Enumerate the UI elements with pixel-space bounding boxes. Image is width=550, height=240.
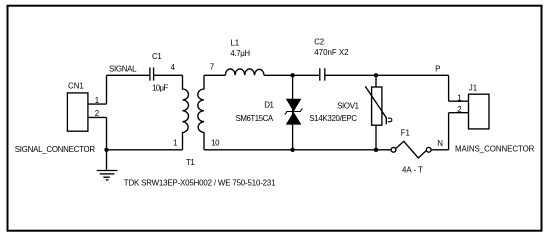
svg-text:S14K320/EPC: S14K320/EPC: [309, 114, 357, 123]
wire CN1 pin2 down to ground node: [106, 117, 108, 149]
connector CN1: [67, 81, 88, 131]
wire SIGNAL net to C1: [107, 74, 150, 76]
svg-text:F1: F1: [401, 129, 410, 138]
inductor L1: [225, 39, 264, 76]
svg-text:N: N: [437, 139, 443, 148]
junction node at SIOV1 top: [374, 73, 378, 77]
svg-text:C2: C2: [314, 37, 324, 46]
bottom wire ground node to T1 pin1: [107, 149, 183, 151]
capacitor C1: [150, 52, 168, 92]
pin 1 (CN1): [88, 96, 107, 105]
wire C2 to P corner: [325, 74, 449, 76]
svg-text:C1: C1: [152, 52, 162, 61]
bottom wire T1 pin10 to fuse F1: [204, 149, 391, 151]
svg-text:TDK SRW13EP-X05H002 / WE 750-5: TDK SRW13EP-X05H002 / WE 750-510-231: [124, 179, 276, 188]
ground: [97, 150, 118, 180]
svg-text:CN1: CN1: [68, 81, 84, 90]
svg-text:1: 1: [95, 96, 99, 105]
varistor SIOV1: [309, 75, 392, 150]
junction node at D1 top: [290, 73, 294, 77]
wire T1 pin7 to L1: [204, 74, 225, 76]
svg-text:4: 4: [171, 63, 176, 72]
svg-text:P: P: [435, 65, 440, 74]
svg-text:4A - T: 4A - T: [402, 165, 423, 174]
junction node ground: [104, 148, 108, 152]
svg-text:1: 1: [457, 94, 461, 103]
svg-text:10µF: 10µF: [152, 84, 168, 93]
svg-text:J1: J1: [469, 83, 477, 92]
capacitor C2: [314, 37, 348, 80]
TVS diode D1: [236, 75, 303, 150]
svg-text:2: 2: [95, 109, 99, 118]
wire CN1 pin1 up to SIGNAL net: [106, 75, 108, 104]
svg-text:10: 10: [211, 138, 220, 147]
svg-text:4.7µH: 4.7µH: [230, 49, 250, 58]
svg-text:7: 7: [210, 63, 214, 72]
wire J1 pin2 down to N net: [448, 113, 450, 150]
svg-text:SIGNAL: SIGNAL: [109, 64, 137, 73]
wire fuse to N corner: [431, 149, 449, 151]
svg-text:SIOV1: SIOV1: [337, 101, 359, 110]
junction node at D1 bottom: [290, 148, 294, 152]
svg-text:2: 2: [457, 105, 461, 114]
wire P corner down to J1 pin1: [448, 75, 450, 101]
svg-text:MAINS_CONNECTOR: MAINS_CONNECTOR: [455, 144, 535, 153]
pin 2 (J1): [449, 105, 469, 114]
connector J1: [469, 83, 490, 129]
transformer T1: [183, 75, 205, 167]
pin 1 (J1): [449, 94, 469, 103]
svg-text:SM6T15CA: SM6T15CA: [236, 114, 274, 123]
svg-text:D1: D1: [264, 100, 273, 109]
svg-text:SIGNAL_CONNECTOR: SIGNAL_CONNECTOR: [15, 145, 96, 154]
junction node at SIOV1 bottom: [374, 148, 378, 152]
svg-text:1: 1: [173, 138, 177, 147]
fuse F1: [391, 129, 431, 175]
svg-text:T1: T1: [186, 158, 194, 167]
wire C1 to T1 pin 4: [154, 74, 183, 76]
svg-text:470nF X2: 470nF X2: [314, 48, 348, 57]
pin 2 (CN1): [88, 109, 107, 118]
svg-text:L1: L1: [230, 39, 239, 48]
wire L1 to C2: [264, 74, 319, 76]
